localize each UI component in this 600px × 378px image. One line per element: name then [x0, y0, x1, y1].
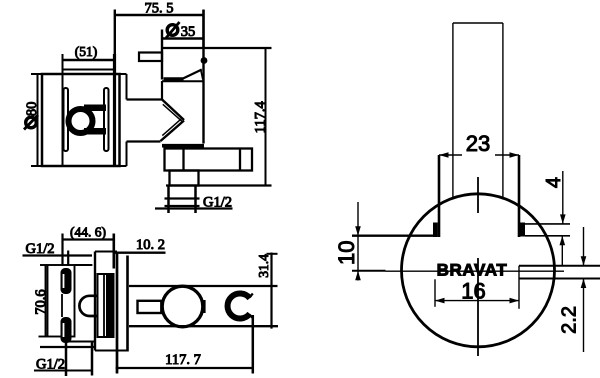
svg-text:16: 16	[461, 279, 485, 304]
label G1/2 leader line	[155, 207, 233, 209]
svg-text:117. 7: 117. 7	[165, 352, 201, 368]
escutcheon front edge	[116, 252, 119, 374]
cartridge flange left	[64, 88, 69, 151]
outlet lower block	[170, 171, 199, 186]
dimension 2.2 arrows	[581, 227, 587, 352]
spout head top edge	[162, 47, 204, 49]
valve body left edge	[62, 64, 64, 166]
pipe thread line 1	[165, 197, 200, 199]
outlet pipe left edge	[167, 186, 170, 214]
head diagonal cut	[183, 70, 202, 79]
union chevron lower inner diagonal	[162, 118, 182, 135]
horizontal centerline thick part / 10 extension	[352, 270, 386, 272]
dimension 23 line with arrows	[439, 152, 519, 158]
svg-text:10: 10	[334, 240, 359, 264]
dimension 10 arrows	[355, 202, 361, 281]
cartridge housing dark band	[106, 274, 113, 337]
escutcheon back edge	[94, 252, 96, 351]
right shoulder block	[519, 223, 526, 237]
dimension 2.2 lines	[519, 266, 600, 279]
neck left edge	[161, 81, 163, 100]
inlet port capsule bottom	[61, 317, 72, 343]
cartridge flange right	[104, 88, 109, 151]
valve body right edge	[113, 54, 116, 166]
port slit bottom	[63, 323, 65, 337]
cartridge housing rect	[98, 274, 114, 337]
dimension 117.7 line	[116, 367, 253, 369]
spout head right edge	[202, 10, 204, 144]
svg-text:80: 80	[24, 102, 40, 117]
pipe thread line 2	[165, 205, 200, 207]
dimension 16 line with arrows	[435, 279, 519, 307]
riser bar right edge	[502, 23, 504, 200]
spout tube rear edge	[126, 256, 129, 352]
spout tube top edge	[129, 285, 278, 287]
outlet thick top bar	[162, 144, 204, 148]
port slit top	[63, 274, 65, 288]
svg-text:(44. 6): (44. 6)	[70, 225, 106, 240]
label G1/2 lower leader	[34, 370, 92, 372]
union chevron upper diagonal	[162, 99, 185, 120]
svg-text:117.4: 117.4	[253, 101, 269, 134]
svg-text:75. 5: 75. 5	[145, 1, 174, 17]
wall plate	[42, 74, 120, 166]
dimension 4 arrows	[560, 171, 566, 266]
outlet collar line left	[182, 149, 184, 171]
body rear line	[40, 346, 95, 348]
valve body top edge	[63, 69, 115, 71]
outlet body rectangle	[165, 149, 253, 171]
head diagonal small	[201, 70, 203, 80]
lower inlet box top	[65, 341, 95, 343]
holder hook bottom	[250, 315, 254, 319]
svg-text:BRAVAT: BRAVAT	[437, 261, 508, 280]
riser bar left edge	[452, 23, 454, 200]
shower holder C clip	[228, 293, 250, 318]
dimension 70.6	[39, 265, 48, 337]
slot left extension	[438, 155, 441, 237]
dimension Ø80 text	[24, 115, 38, 130]
spout tube end edge / 31.4 dimension line	[270, 253, 272, 329]
union chevron lower diagonal	[161, 121, 185, 142]
handle bar top	[84, 105, 106, 112]
dimension 10.2 line	[114, 252, 166, 254]
dimension 75.5 line	[115, 10, 204, 49]
svg-text:23: 23	[466, 131, 490, 156]
dimension 117.4	[166, 48, 272, 186]
handle bar bottom	[84, 128, 106, 135]
vertical centerline	[477, 177, 479, 213]
port connecting line	[61, 294, 63, 317]
extension line left of 75.5	[114, 10, 116, 75]
svg-text:(51): (51)	[75, 44, 98, 59]
left shoulder line	[352, 234, 433, 236]
head bottom thick line	[164, 77, 184, 80]
right shoulder line upper	[525, 223, 570, 225]
escutcheon bottom edge	[95, 350, 128, 352]
escutcheon top edge	[95, 251, 117, 253]
lower inlet right edge	[91, 342, 94, 376]
dimension (44.6) line	[63, 234, 114, 269]
left shoulder block	[433, 223, 438, 238]
outlet pipe right edge	[194, 186, 197, 214]
dimension Ø35 text	[166, 22, 180, 38]
union chevron upper inner diagonal	[163, 104, 183, 122]
side lever rectangle	[139, 53, 162, 62]
head lower edge	[162, 80, 203, 82]
label G1/2 upper leader	[23, 254, 93, 256]
spout cylinder extension line	[161, 30, 163, 80]
16 right step	[518, 266, 520, 309]
holder hook top	[250, 294, 253, 298]
escutcheon circle	[402, 194, 555, 347]
inlet port capsule top	[61, 268, 72, 294]
pivot dot	[201, 57, 208, 64]
lower inlet left edge	[65, 342, 68, 377]
horizontal centerline	[386, 270, 565, 272]
handle knob ring	[69, 109, 93, 133]
svg-text:70.6: 70.6	[33, 289, 49, 314]
slot right extension	[518, 155, 521, 237]
plate front cap lines	[120, 74, 127, 166]
valve body plan rectangle	[46, 265, 75, 337]
riser bar top edge	[453, 22, 503, 24]
union nut bump	[79, 296, 97, 316]
svg-text:31.4: 31.4	[256, 254, 271, 278]
holder stem / 117.7 right extension	[252, 315, 255, 374]
svg-text:2.2: 2.2	[559, 306, 581, 334]
dimension Ø80	[31, 74, 42, 166]
cartridge housing inner line	[103, 274, 105, 337]
outlet collar line right	[239, 149, 241, 171]
svg-text:10. 2: 10. 2	[136, 237, 165, 253]
dimension Ø35 line	[162, 37, 204, 40]
spout tube bottom edge	[129, 325, 278, 327]
connecting pipe top edge	[127, 98, 162, 100]
upper inlet stub	[67, 251, 69, 267]
spout knob circle	[162, 286, 203, 327]
svg-text:4: 4	[543, 177, 565, 188]
dimension (51) line	[63, 54, 116, 64]
spout lever stub	[138, 301, 162, 313]
connecting pipe bottom edge	[127, 140, 161, 142]
right shoulder line lower	[525, 235, 570, 237]
